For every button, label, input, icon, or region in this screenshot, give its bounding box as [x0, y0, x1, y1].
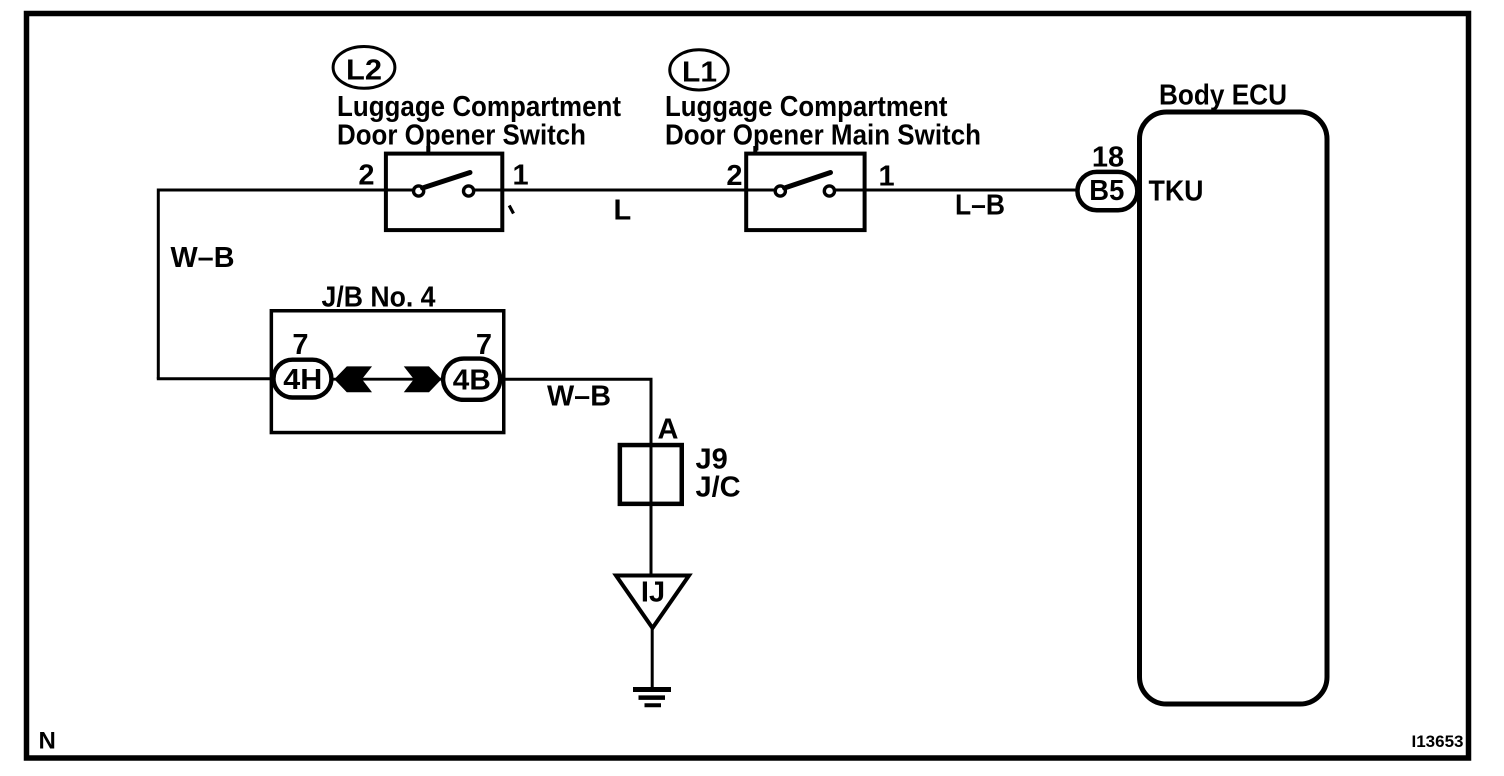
ground symbol — [633, 690, 671, 706]
svg-text:Door Opener Switch: Door Opener Switch — [337, 120, 586, 152]
svg-text:A: A — [658, 414, 679, 446]
J/B No. 4 box — [271, 282, 503, 433]
svg-text:4B: 4B — [453, 365, 491, 397]
connector 4B (stadium) — [443, 359, 500, 400]
connector 4H (stadium) — [274, 360, 332, 398]
svg-text:7: 7 — [292, 329, 308, 361]
svg-text:L–B: L–B — [955, 190, 1005, 222]
wire: triangle apex to ground symbol — [651, 628, 654, 687]
arrowhead pointing right at 4B — [405, 367, 441, 392]
wire: L net between switch L2 and switch L1 — [474, 189, 775, 192]
svg-text:L: L — [614, 195, 632, 227]
wire: L-B net between switch L1 and connector B5 — [835, 189, 1077, 192]
switch L1 (Luggage Compartment Door Opener Main Switch) — [746, 154, 864, 231]
Body ECU box — [1140, 80, 1328, 705]
connector oval L1 — [670, 50, 729, 90]
stray scan mark near pin 1 of L2 — [509, 206, 513, 214]
svg-text:4H: 4H — [283, 364, 322, 396]
svg-text:Body ECU: Body ECU — [1159, 80, 1287, 112]
svg-text:J/C: J/C — [696, 472, 741, 504]
svg-text:L1: L1 — [682, 57, 717, 89]
wire: W-B vertical branch down from corner x=158 — [157, 189, 160, 379]
ground triangle IJ — [616, 576, 689, 629]
svg-text:Luggage Compartment: Luggage Compartment — [337, 91, 621, 123]
svg-text:I13653: I13653 — [1412, 732, 1464, 751]
svg-text:L2: L2 — [346, 55, 382, 87]
wire: node 2 of L2 to W-B branch corner (horizontal, y=190) — [158, 189, 413, 192]
junction connector J9 J/C box — [620, 444, 741, 504]
svg-text:W–B: W–B — [547, 381, 611, 413]
svg-text:TKU: TKU — [1149, 176, 1204, 208]
svg-text:B5: B5 — [1089, 175, 1124, 207]
svg-text:2: 2 — [726, 160, 742, 192]
svg-text:Door Opener Main Switch: Door Opener Main Switch — [665, 120, 981, 152]
svg-text:1: 1 — [513, 160, 529, 192]
label: Luggage Compartment Door Opener Main Switch (with leader tick) — [665, 91, 981, 153]
svg-text:IJ: IJ — [641, 577, 665, 609]
wire: horizontal into J/B connector 4H at y=378.8 — [157, 377, 272, 380]
svg-text:Luggage Compartment: Luggage Compartment — [665, 91, 948, 123]
svg-text:J/B No. 4: J/B No. 4 — [322, 282, 436, 314]
wire: link between 4H and 4B inside J/B — [333, 378, 441, 381]
svg-text:2: 2 — [358, 160, 374, 192]
svg-text:18: 18 — [1092, 142, 1124, 174]
svg-text:7: 7 — [476, 329, 492, 361]
arrowhead pointing left at 4H — [335, 367, 371, 392]
connector oval L2 — [333, 47, 395, 89]
wire: W-B from 4B to corner then down through J9 to ground triangle — [502, 379, 651, 575]
svg-text:N: N — [39, 728, 56, 755]
label: Luggage Compartment Door Opener Switch (with leader tick) — [337, 91, 621, 153]
switch L2 (Luggage Compartment Door Opener Switch) — [386, 154, 502, 231]
svg-text:W–B: W–B — [171, 242, 235, 274]
svg-text:1: 1 — [879, 161, 895, 193]
connector B5 (stadium) — [1077, 172, 1137, 210]
